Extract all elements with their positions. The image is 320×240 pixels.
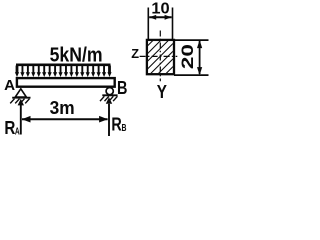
height dimension arrows xyxy=(197,40,202,75)
svg-text:B: B xyxy=(117,78,127,98)
svg-text:10: 10 xyxy=(151,1,170,18)
reaction RB arrow xyxy=(106,97,112,136)
dimension 3m line xyxy=(22,116,108,123)
distributed load arrows xyxy=(15,66,112,78)
svg-text:3m: 3m xyxy=(50,97,75,118)
svg-text:5kN/m: 5kN/m xyxy=(50,44,103,66)
vertical centreline Y axis xyxy=(159,31,161,82)
width dimension extension lines xyxy=(147,8,149,40)
reaction RA arrow xyxy=(18,99,24,135)
svg-text:Z: Z xyxy=(131,46,139,61)
support B roller circle xyxy=(106,88,113,95)
svg-text:R: R xyxy=(4,118,15,138)
width dimension arrows xyxy=(149,15,171,20)
beam xyxy=(17,78,115,87)
svg-text:A: A xyxy=(15,126,20,138)
support B ground line xyxy=(102,94,117,96)
support B ground hatching xyxy=(100,96,117,101)
svg-text:B: B xyxy=(122,122,127,134)
support A ground hatching xyxy=(10,99,29,104)
distributed load top line xyxy=(16,64,111,67)
svg-text:20: 20 xyxy=(179,44,197,69)
support A pin triangle xyxy=(15,89,26,97)
horizontal centreline Z axis xyxy=(140,55,178,57)
section outline xyxy=(147,40,174,74)
support A ground line xyxy=(12,97,30,99)
svg-text:A: A xyxy=(4,78,16,94)
svg-text:Y: Y xyxy=(157,82,167,102)
height dimension extension lines xyxy=(174,39,209,41)
svg-text:R: R xyxy=(111,115,121,135)
